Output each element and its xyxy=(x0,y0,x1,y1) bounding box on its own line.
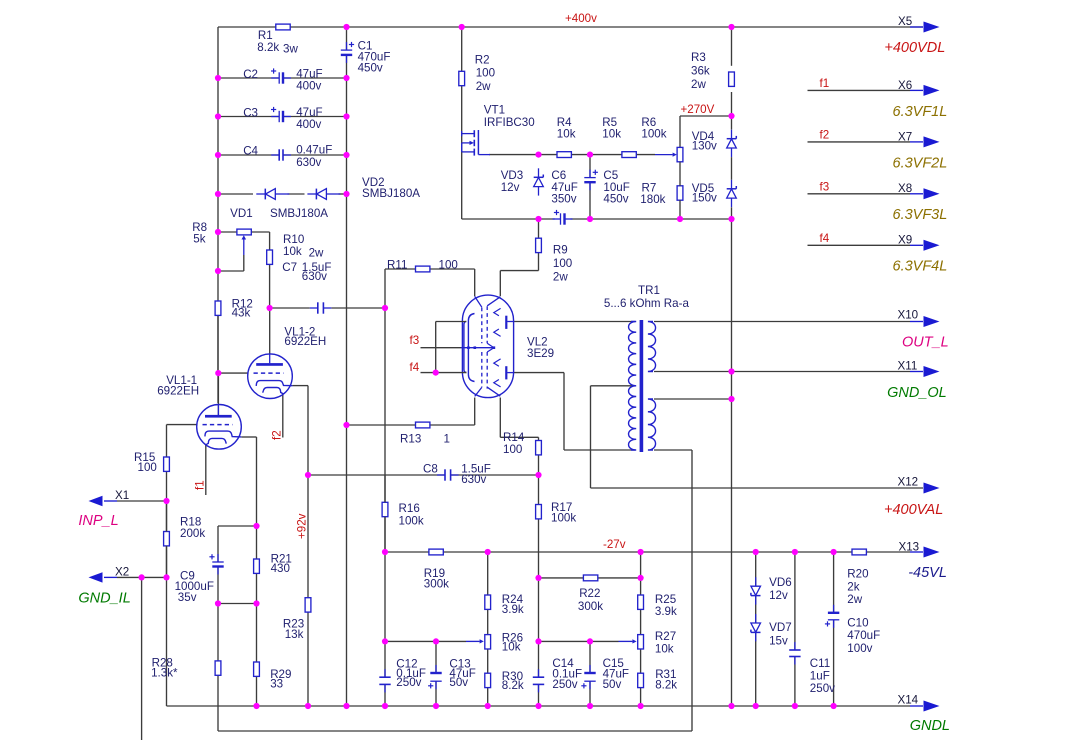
svg-text:C10: C10 xyxy=(847,617,868,630)
svg-text:C3: C3 xyxy=(243,106,258,119)
wire R12 branch xyxy=(217,301,219,373)
svg-text:C7: C7 xyxy=(282,261,297,274)
svg-text:6.3VF1L: 6.3VF1L xyxy=(893,104,948,120)
svg-text:43k: 43k xyxy=(232,307,251,320)
svg-text:C8: C8 xyxy=(423,463,438,476)
svg-text:250v: 250v xyxy=(396,676,421,689)
wire C13 branch xyxy=(435,641,437,706)
svg-text:X9: X9 xyxy=(898,234,912,247)
svg-text:6.3VF2L: 6.3VF2L xyxy=(893,155,948,171)
resistor R11 xyxy=(387,259,458,272)
resistor R15 xyxy=(134,451,169,474)
svg-text:C2: C2 xyxy=(243,68,258,81)
svg-text:6.3VF4L: 6.3VF4L xyxy=(893,259,948,275)
resistor R1 xyxy=(257,24,298,55)
svg-text:2w: 2w xyxy=(553,270,568,283)
svg-text:R11: R11 xyxy=(387,259,407,272)
svg-text:f4: f4 xyxy=(410,361,420,374)
port X10 OUT_L xyxy=(898,309,949,351)
wire C8 row xyxy=(308,474,539,476)
svg-text:100: 100 xyxy=(138,461,157,474)
wire R6 top to +270 xyxy=(680,116,732,147)
net label f2 xyxy=(271,430,284,440)
svg-text:2w: 2w xyxy=(476,80,491,93)
port X5 +400VDL xyxy=(884,15,945,56)
capacitor C7 xyxy=(282,261,331,314)
resistor R9 xyxy=(536,238,573,283)
triode VL1-1 xyxy=(157,374,241,449)
wire R28 branch xyxy=(217,604,219,732)
resistor R12 xyxy=(215,298,253,320)
net label f4 port xyxy=(820,232,830,245)
svg-text:VD1: VD1 xyxy=(230,207,253,220)
svg-text:OUT_L: OUT_L xyxy=(902,335,949,351)
svg-text:100: 100 xyxy=(439,259,458,272)
svg-text:SMBJ180A: SMBJ180A xyxy=(270,207,328,220)
svg-text:VD7: VD7 xyxy=(769,621,792,634)
svg-text:5k: 5k xyxy=(193,232,205,245)
wire VD1 VD2 row xyxy=(218,193,348,195)
svg-text:SMBJ180A: SMBJ180A xyxy=(362,187,420,200)
capacitor C12 xyxy=(379,658,426,693)
zener diode VD4 xyxy=(692,130,737,157)
svg-text:X1: X1 xyxy=(115,489,129,502)
svg-text:3.9k: 3.9k xyxy=(655,605,677,618)
svg-text:-27v: -27v xyxy=(603,538,626,551)
svg-text:1uF: 1uF xyxy=(810,670,830,683)
wire VT1 gate node xyxy=(489,154,655,156)
wire R13 row xyxy=(347,398,475,426)
resistor R29 xyxy=(254,662,292,691)
wire R2/VT1 rail xyxy=(461,27,463,219)
wire VD6 VD7 rail xyxy=(755,552,757,706)
resistor R21 xyxy=(254,552,292,575)
resistor R13 xyxy=(400,422,450,445)
zener diode VD5 xyxy=(692,180,737,207)
resistor R30 xyxy=(485,670,524,692)
wire R10 to VL1-2 plate xyxy=(269,264,271,354)
svg-text:R25: R25 xyxy=(655,593,676,606)
wire R8 rheostat return xyxy=(218,255,244,271)
svg-text:R2: R2 xyxy=(475,53,490,66)
net label f1 xyxy=(194,480,207,490)
wire right rail x=731 xyxy=(731,27,733,706)
port X8 6.3VF3L xyxy=(893,182,948,223)
wire f4 tube stub xyxy=(421,322,467,373)
wire C1 branch xyxy=(346,27,348,78)
potentiometer R8 xyxy=(192,221,251,255)
svg-text:10k: 10k xyxy=(655,642,674,655)
svg-text:f4: f4 xyxy=(820,232,830,245)
wire VL1-2 cathode to +92v rail xyxy=(292,386,308,706)
svg-text:+270V: +270V xyxy=(681,103,715,116)
transformer TR1 xyxy=(604,284,690,452)
svg-text:180k: 180k xyxy=(640,193,665,206)
wire anode1 to TR1 primary xyxy=(514,321,635,323)
zener diode VD6 xyxy=(751,576,792,605)
wire R20 to X13 xyxy=(834,551,923,553)
svg-text:15v: 15v xyxy=(769,634,788,647)
potentiometer R6 xyxy=(641,116,682,162)
svg-text:100: 100 xyxy=(553,257,572,270)
port X9 6.3VF4L xyxy=(893,234,948,275)
wire mid rail x=385 xyxy=(384,308,386,706)
wire left wiper row xyxy=(385,640,480,642)
wire TR1 secondary1 bottom X11 row xyxy=(654,371,923,373)
net label -27v xyxy=(603,538,626,551)
svg-text:3.9k: 3.9k xyxy=(502,603,524,616)
capacitor C8 xyxy=(423,463,491,486)
svg-text:X5: X5 xyxy=(898,15,912,28)
port X2 GND_IL xyxy=(78,566,130,607)
net label f2 port xyxy=(820,129,830,142)
wire R14-R17 rail xyxy=(538,455,540,578)
capacitor C2 xyxy=(243,67,322,92)
svg-text:IRFIBC30: IRFIBC30 xyxy=(484,116,535,129)
wire f1 stub xyxy=(205,445,207,495)
resistor R28 xyxy=(151,657,221,680)
resistor R31 xyxy=(638,668,678,691)
wire VL2 right-bottom to R14 xyxy=(500,398,538,441)
resistor R5 xyxy=(602,116,636,158)
resistor R17 xyxy=(536,501,577,525)
resistor R4 xyxy=(557,116,576,158)
port X12 +400VAL xyxy=(884,476,943,519)
svg-text:450v: 450v xyxy=(603,193,628,206)
svg-text:+400VDL: +400VDL xyxy=(884,40,945,56)
transistor VT1 MOSFET xyxy=(462,104,535,156)
wire VL1-1 cathode to R21 xyxy=(241,437,256,706)
svg-text:VT1: VT1 xyxy=(484,104,505,117)
port X7 6.3VF2L xyxy=(893,130,948,171)
net label +92v xyxy=(296,513,309,539)
svg-text:X12: X12 xyxy=(898,476,919,489)
svg-text:f3: f3 xyxy=(410,334,420,347)
svg-text:1: 1 xyxy=(444,432,450,445)
svg-text:630v: 630v xyxy=(302,270,327,283)
svg-text:630v: 630v xyxy=(461,473,486,486)
svg-text:8.2k: 8.2k xyxy=(502,679,524,692)
svg-text:X2: X2 xyxy=(115,566,129,579)
svg-text:50v: 50v xyxy=(603,678,622,691)
svg-text:2w: 2w xyxy=(691,78,706,91)
wire TR1 center tap to X12 xyxy=(591,386,924,488)
diode VD2 xyxy=(270,176,420,220)
svg-text:-45VL: -45VL xyxy=(908,565,947,581)
wire VL1-1 plate lead xyxy=(217,373,219,415)
diode VD1 xyxy=(230,189,289,220)
svg-text:10k: 10k xyxy=(557,128,576,141)
svg-text:400v: 400v xyxy=(296,118,321,131)
wire R22 row xyxy=(539,577,641,579)
wire f3 port row xyxy=(808,193,924,195)
svg-text:6.3VF3L: 6.3VF3L xyxy=(893,207,948,223)
svg-text:f2: f2 xyxy=(271,430,284,440)
svg-text:6922EH: 6922EH xyxy=(157,384,199,397)
svg-text:250v: 250v xyxy=(810,682,835,695)
svg-text:GND_IL: GND_IL xyxy=(78,591,130,607)
svg-text:10k: 10k xyxy=(602,128,621,141)
svg-text:1.3k*: 1.3k* xyxy=(151,666,178,679)
wire R25 rail xyxy=(640,552,642,706)
wire X5 blue stub xyxy=(910,26,923,28)
wire f2 stub xyxy=(282,394,284,438)
svg-text:100: 100 xyxy=(503,443,522,456)
svg-text:+400VAL: +400VAL xyxy=(884,502,943,518)
svg-text:X13: X13 xyxy=(899,541,920,554)
svg-text:430: 430 xyxy=(271,562,290,575)
svg-text:36k: 36k xyxy=(691,65,710,78)
svg-text:12v: 12v xyxy=(769,589,788,602)
svg-text:R13: R13 xyxy=(400,432,421,445)
svg-text:6922EH: 6922EH xyxy=(284,335,326,348)
resistor R2 xyxy=(459,53,495,93)
svg-text:+92v: +92v xyxy=(296,513,309,539)
svg-text:0.47uF: 0.47uF xyxy=(296,144,332,157)
svg-text:470uF: 470uF xyxy=(847,629,880,642)
potentiometer R26 xyxy=(480,632,523,654)
wire f2 port row xyxy=(808,141,924,143)
svg-text:100v: 100v xyxy=(847,642,872,655)
wire VL1-1 grid branch xyxy=(167,425,198,706)
capacitor C13 xyxy=(428,658,476,690)
resistor R24 xyxy=(485,593,524,616)
wire C10 rail xyxy=(833,552,835,706)
svg-text:X7: X7 xyxy=(898,130,912,143)
svg-text:X10: X10 xyxy=(898,309,919,322)
svg-text:200k: 200k xyxy=(180,527,205,540)
wire VL1-2 grid lead xyxy=(218,372,248,374)
resistor R3 xyxy=(691,51,734,91)
capacitor C6 xyxy=(551,169,577,225)
svg-text:3E29: 3E29 xyxy=(527,347,554,360)
wire f4 port row xyxy=(808,244,924,246)
wire filter rail x=346 xyxy=(346,78,348,706)
wire TR1 secondary2 top xyxy=(654,398,732,400)
resistor R19 xyxy=(424,549,449,590)
svg-text:300k: 300k xyxy=(578,600,603,613)
beam tetrode VL2 xyxy=(461,295,554,398)
wire ground row xyxy=(167,705,924,707)
svg-text:R3: R3 xyxy=(691,51,706,64)
svg-text:400v: 400v xyxy=(296,79,321,92)
svg-text:250v: 250v xyxy=(552,678,577,691)
svg-text:f3: f3 xyxy=(820,180,830,193)
wire -27v row xyxy=(385,551,834,553)
wire X1 row xyxy=(104,500,167,502)
resistor R22 xyxy=(578,575,603,613)
svg-text:100k: 100k xyxy=(551,512,576,525)
wire R11 row xyxy=(385,269,475,308)
wire X2 row xyxy=(104,577,167,740)
svg-text:130v: 130v xyxy=(692,140,717,153)
capacitor C1 xyxy=(341,39,391,74)
svg-text:150v: 150v xyxy=(692,192,717,205)
svg-text:f2: f2 xyxy=(820,129,830,142)
wire C2 row xyxy=(218,77,347,79)
wire C11 rail xyxy=(794,552,796,706)
wire +400v top rail xyxy=(218,27,923,403)
svg-text:R20: R20 xyxy=(847,568,868,581)
capacitor C14 xyxy=(533,657,582,693)
net label f3 port xyxy=(820,180,830,193)
svg-text:X11: X11 xyxy=(898,360,918,373)
capacitor C4 xyxy=(243,144,332,169)
port X14 GNDL xyxy=(898,694,950,735)
resistor R18 xyxy=(164,501,206,577)
capacitor C11 xyxy=(789,642,835,695)
svg-text:C11: C11 xyxy=(810,657,830,670)
wire right wiper row xyxy=(539,640,633,642)
wire TR1 secondary1 top X10 row xyxy=(654,321,923,323)
svg-text:3w: 3w xyxy=(283,42,298,55)
svg-text:R27: R27 xyxy=(655,630,676,643)
svg-text:350v: 350v xyxy=(551,193,576,206)
svg-text:10k: 10k xyxy=(502,641,521,654)
svg-text:33: 33 xyxy=(270,678,283,691)
zener diode VD7 xyxy=(751,614,792,647)
port X1 INP_L xyxy=(78,489,129,529)
port X11 GND_OL xyxy=(887,360,947,402)
wire f3 tube stub xyxy=(421,347,462,349)
svg-text:100k: 100k xyxy=(641,128,666,141)
wire C3 row xyxy=(218,116,347,118)
svg-text:5...6 kOhm Ra-a: 5...6 kOhm Ra-a xyxy=(604,297,690,310)
svg-text:100: 100 xyxy=(476,67,495,80)
wire f1 port row xyxy=(808,89,924,91)
svg-text:100k: 100k xyxy=(399,514,424,527)
svg-text:X14: X14 xyxy=(898,694,919,707)
svg-text:VD6: VD6 xyxy=(769,576,792,589)
svg-text:R22: R22 xyxy=(579,587,600,600)
svg-text:12v: 12v xyxy=(501,181,520,194)
wire x=538 lower rail xyxy=(538,578,540,706)
svg-text:X6: X6 xyxy=(898,79,912,92)
zener diode VD3 xyxy=(501,168,544,195)
triode VL1-2 xyxy=(248,326,327,399)
svg-text:R16: R16 xyxy=(399,502,420,515)
svg-text:2k: 2k xyxy=(847,580,859,593)
net label f4 tube xyxy=(410,361,420,374)
svg-text:450v: 450v xyxy=(358,62,383,75)
net label f3 tube xyxy=(410,334,420,347)
svg-text:GNDL: GNDL xyxy=(910,718,950,734)
net label f1 port xyxy=(820,77,830,90)
svg-text:f1: f1 xyxy=(194,480,207,490)
svg-text:2w: 2w xyxy=(309,247,324,260)
wire C4 row xyxy=(218,154,347,156)
wire R24 rail xyxy=(487,552,489,706)
svg-text:35v: 35v xyxy=(178,591,197,604)
svg-text:C4: C4 xyxy=(243,144,258,157)
svg-text:R9: R9 xyxy=(553,244,568,257)
wire C12 gap xyxy=(384,676,386,678)
svg-text:f1: f1 xyxy=(820,77,830,90)
resistor R25 xyxy=(638,593,677,618)
svg-text:630v: 630v xyxy=(296,156,321,169)
resistor R20 xyxy=(847,549,868,606)
capacitor C10 xyxy=(825,605,880,655)
svg-text:300k: 300k xyxy=(424,577,449,590)
net label +270V xyxy=(681,103,715,116)
svg-text:10k: 10k xyxy=(283,245,302,258)
wire TR1 secondary2 bottom feedback xyxy=(218,450,692,731)
wire VT1 source row xyxy=(462,218,732,220)
resistor R16 xyxy=(382,475,424,552)
wire C15 branch xyxy=(589,641,591,706)
svg-text:TR1: TR1 xyxy=(638,284,660,297)
port X6 6.3VF1L xyxy=(893,79,948,120)
svg-text:GND_OL: GND_OL xyxy=(887,385,947,401)
svg-text:8.2k: 8.2k xyxy=(257,41,279,54)
svg-text:INP_L: INP_L xyxy=(78,513,118,529)
resistor R7 xyxy=(640,162,683,219)
svg-text:13k: 13k xyxy=(285,628,304,641)
resistor R23 xyxy=(283,598,311,641)
svg-text:X8: X8 xyxy=(898,182,912,195)
resistor R14 xyxy=(503,431,541,456)
wire anode2 jog to TR1 primary bottom xyxy=(514,373,635,450)
capacitor C3 xyxy=(243,106,322,131)
resistor R10 xyxy=(267,233,324,264)
svg-text:2w: 2w xyxy=(847,593,862,606)
wire C9 branch xyxy=(218,526,257,604)
wire R9 branch xyxy=(500,219,538,296)
capacitor C5 xyxy=(584,155,630,219)
svg-text:50v: 50v xyxy=(449,676,468,689)
net label +400v xyxy=(565,12,597,25)
svg-text:8.2k: 8.2k xyxy=(655,678,677,691)
port X13 -45VL xyxy=(899,541,947,582)
potentiometer R27 xyxy=(632,630,676,655)
capacitor C15 xyxy=(581,657,629,691)
capacitor C9 xyxy=(175,554,224,604)
svg-text:+400v: +400v xyxy=(565,12,597,25)
wire C7 row xyxy=(270,307,385,309)
wire R8 row xyxy=(218,232,270,250)
